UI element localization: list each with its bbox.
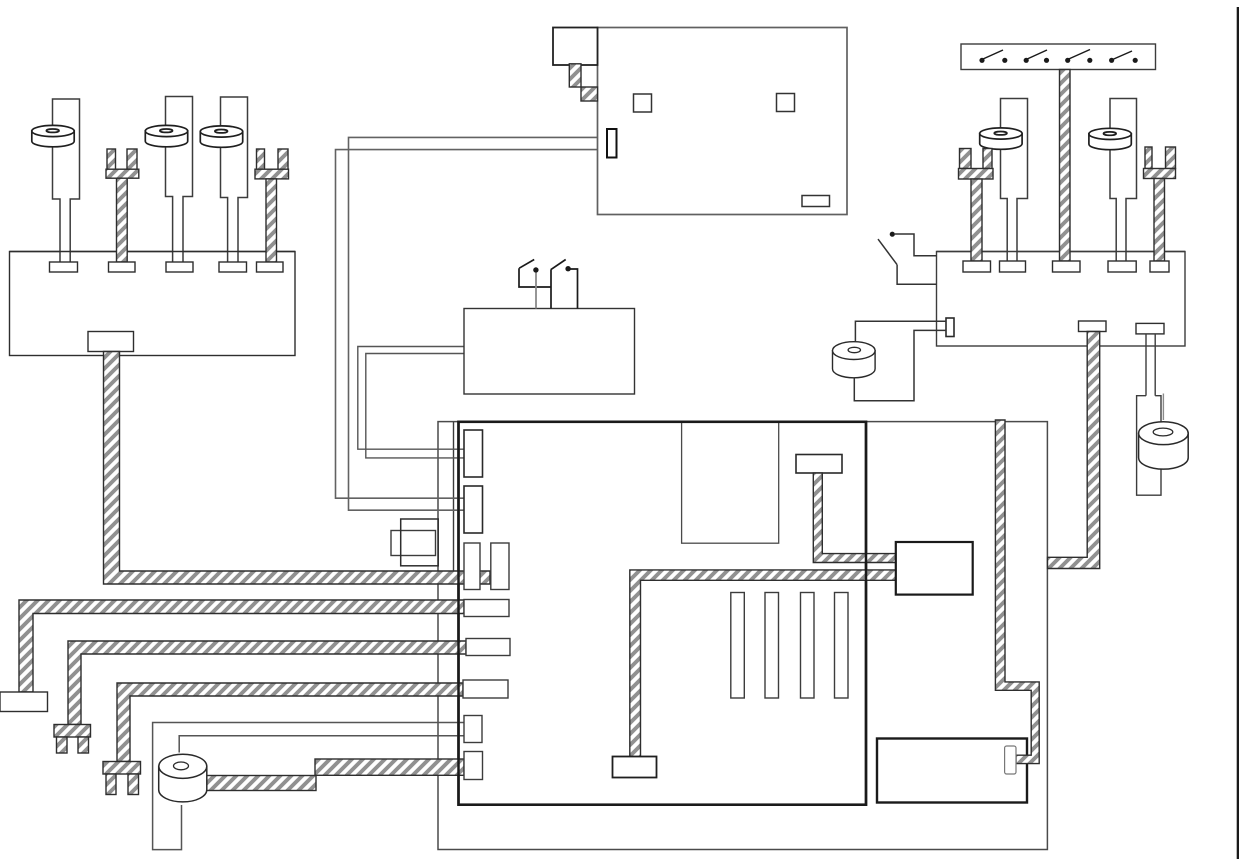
figure right border [1237,7,1239,859]
slot 1 [731,593,745,699]
fork post F1 [106,149,139,262]
pad for bus 3 [466,639,510,656]
port on right block left side [946,318,954,337]
pad for thin wires [464,716,482,743]
connector rect 3a [464,543,480,590]
switch at right block [878,232,937,285]
bar switch 1 [979,50,1007,63]
fork terminal of bus 4 [103,762,141,775]
fork post FR5 [1144,147,1176,261]
pad B on right block bottom [1136,323,1164,334]
motor cylinder bottom-left [159,754,207,802]
bar switch 4 [1109,51,1138,63]
thin wire upper from pad5 to motor bottom [153,723,464,850]
pad for bus 2 [464,600,509,617]
plug P2 [145,97,192,263]
bus 4 [117,683,463,762]
motor bus (stepped) [204,776,316,791]
main control unit outline redraw (on top of buses) [459,422,867,805]
holder under pad B [1137,396,1161,496]
pad for bus 4 [463,680,508,698]
outer enclosure box [438,422,1047,850]
square 1 in top box [634,94,652,112]
left junction box [10,252,296,356]
wire from buzzer bottom loop to port [854,330,946,400]
wire from buzzer top to port [855,321,946,341]
connector rect 3b [491,543,509,590]
bar switch 2 [1024,50,1050,63]
connector rect 2 on control unit [464,486,483,533]
slot 2 [765,593,779,699]
right block top edge redraw [937,251,1186,253]
narrow bus from terminal plate [813,473,896,563]
fork terminal of bus 3 [54,725,91,738]
wide bus from pad A (L shape) [1048,332,1100,569]
plug P1 [32,99,80,262]
buzzer cylinder right [833,342,876,378]
fork post FR1 [959,149,994,262]
wire pair from pad B [1145,334,1147,396]
wire A from top box port [349,137,608,510]
bus 3 [68,641,466,725]
pads on left box top edge [50,262,78,272]
hatched step 1 [569,64,581,87]
bar switch 3 [1065,50,1092,63]
bottom right box [877,739,1027,803]
main control unit (bold box) [459,422,867,805]
pads on right block top edge [963,261,991,272]
left box bottom tab [88,332,134,352]
small rect in top box [802,196,830,207]
pad at left edge [0,692,48,712]
bus 2 with end pad [19,600,464,692]
top box [598,28,848,215]
stepped bus right side [995,420,1039,764]
small box A left of outer box [401,519,439,566]
long hatched post from bar [1060,70,1071,262]
pad A on right block bottom [1079,321,1107,332]
plug P3 [200,97,247,262]
relay box (medium) [896,542,973,595]
top box attachment [553,28,598,66]
small box B left of outer box [391,531,436,556]
wire pair from middle box (upper) [358,347,464,450]
plug PR2 [980,99,1028,262]
fork post F2 [255,149,289,262]
wire B from top box port [336,150,608,499]
plug PR4 [1089,99,1137,262]
connector rect 1 on control unit [464,430,483,477]
middle box [464,309,635,395]
pad under center riser [613,757,657,778]
top right switch bar [961,44,1156,70]
terminal plate [796,455,842,474]
slot 4 [835,593,849,699]
buzzer cylinder far right [1139,422,1189,469]
switch S1 above middle box [519,260,551,309]
left box top edge redraw [10,251,296,253]
thin wire lower from pad5 to motor top [179,736,464,753]
wire duct line [453,422,455,571]
connector in bottom right box [1005,746,1016,774]
port on top box [607,129,617,158]
slot 3 [801,593,815,699]
main cable from left box (L) [104,352,491,585]
hatched step 2 [581,87,598,101]
square 2 in top box [777,94,795,112]
switch S2 above middle box [551,260,578,309]
inner compartment [682,422,779,543]
right connector block [937,252,1186,347]
pad for motor bus [464,752,483,780]
wire pair from middle box (lower) [366,354,464,458]
narrow bus center riser [630,570,896,757]
